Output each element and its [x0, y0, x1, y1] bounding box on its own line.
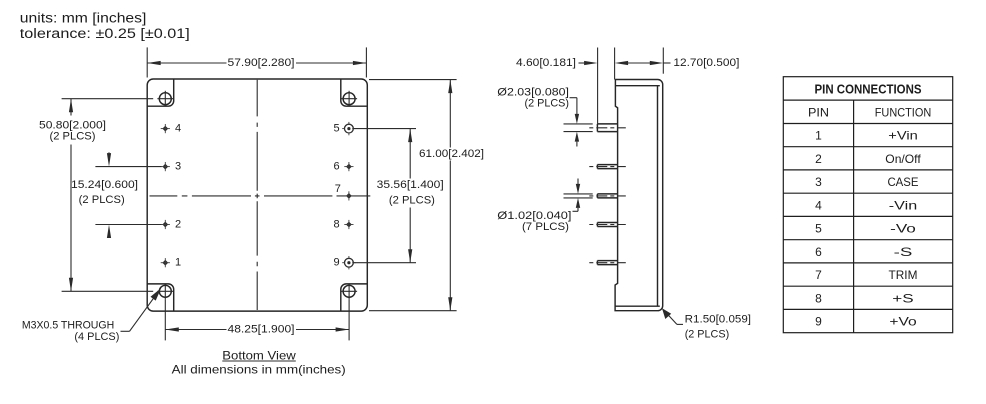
label Bottom View — [222, 348, 296, 362]
vertical center line — [256, 80, 258, 310]
note units — [20, 10, 147, 25]
dimension 15.24 pin rows spacing — [71, 152, 162, 238]
svg-text:5: 5 — [334, 123, 340, 135]
corner ear bottom-right — [341, 284, 368, 311]
svg-text:2: 2 — [175, 219, 181, 231]
pin 2 marker — [161, 219, 181, 231]
side pin row 4 — [589, 223, 626, 227]
table row 8 — [815, 291, 914, 305]
side view case outline — [615, 80, 663, 311]
mounting hole top-right — [341, 91, 357, 107]
svg-text:-Vin: -Vin — [889, 198, 917, 212]
svg-text:Ø2.03[0.080]: Ø2.03[0.080] — [497, 86, 569, 98]
leader R1.50 corner radius — [662, 308, 751, 340]
pin 6 marker — [334, 161, 354, 173]
side pin row 5 — [589, 261, 626, 265]
svg-text:-Vo: -Vo — [890, 222, 916, 236]
pin 1 marker — [161, 257, 181, 269]
svg-text:CASE: CASE — [887, 175, 918, 189]
body outline bottom view — [147, 79, 367, 311]
pin 3 marker — [161, 161, 181, 173]
table row 1 — [815, 129, 918, 143]
svg-text:units: mm [inches]: units: mm [inches] — [20, 10, 147, 25]
svg-text:4: 4 — [815, 198, 822, 212]
svg-text:7: 7 — [815, 268, 822, 282]
svg-text:4.60[0.181]: 4.60[0.181] — [516, 57, 576, 69]
mounting hole bottom-left — [157, 283, 173, 299]
side pin row 1 — [589, 124, 626, 132]
svg-text:8: 8 — [334, 219, 340, 231]
svg-text:3: 3 — [815, 175, 822, 189]
svg-text:61.00[2.402]: 61.00[2.402] — [419, 148, 484, 160]
note tolerance — [20, 26, 190, 41]
svg-text:On/Off: On/Off — [885, 152, 921, 166]
table row 9 — [815, 315, 917, 329]
svg-text:All dimensions in mm(inches): All dimensions in mm(inches) — [172, 363, 346, 377]
pin 5 marker — [334, 122, 356, 135]
svg-text:57.90[2.280]: 57.90[2.280] — [228, 57, 295, 69]
dimension 12.70 body width — [615, 48, 740, 74]
svg-text:35.56[1.400]: 35.56[1.400] — [377, 179, 444, 191]
svg-text:(4 PLCS): (4 PLCS) — [74, 331, 119, 343]
table row 6 — [815, 245, 912, 259]
mounting hole top-left — [157, 91, 173, 107]
svg-text:9: 9 — [334, 257, 340, 269]
pin 8 marker — [334, 219, 354, 231]
corner ear top-right — [341, 79, 368, 106]
table row 7 — [815, 268, 917, 282]
dimension 57.90 top width — [147, 47, 366, 77]
svg-text:(2 PLCS): (2 PLCS) — [389, 195, 435, 207]
label all dimensions note — [172, 363, 346, 377]
pin 4 marker — [161, 123, 181, 135]
svg-text:-S: -S — [894, 245, 913, 259]
svg-text:(2 PLCS): (2 PLCS) — [50, 131, 96, 143]
leader M3X0.5 THROUGH — [22, 288, 161, 343]
svg-text:(7 PLCS): (7 PLCS) — [522, 221, 569, 233]
svg-text:5: 5 — [815, 222, 822, 236]
svg-text:6: 6 — [334, 161, 340, 173]
pin 7 marker — [335, 183, 354, 200]
svg-text:1: 1 — [175, 257, 181, 269]
side pin row 3 — [589, 194, 626, 198]
svg-text:3: 3 — [175, 161, 181, 173]
table row 2 — [815, 152, 921, 166]
svg-text:48.25[1.900]: 48.25[1.900] — [228, 324, 295, 336]
dimension 61.00 right height — [369, 80, 484, 311]
corner ear bottom-left — [147, 284, 174, 311]
svg-text:15.24[0.600]: 15.24[0.600] — [71, 179, 138, 191]
corner ear top-left — [147, 79, 174, 106]
svg-text:9: 9 — [815, 315, 822, 329]
svg-text:50.80[2.000]: 50.80[2.000] — [39, 119, 106, 131]
svg-text:tolerance: ±0.25 [±0.01]: tolerance: ±0.25 [±0.01] — [20, 26, 190, 41]
table row 3 — [815, 175, 918, 189]
svg-text:M3X0.5 THROUGH: M3X0.5 THROUGH — [22, 320, 114, 332]
svg-text:(2 PLCS): (2 PLCS) — [685, 329, 730, 341]
dimension 35.56 pins 5-9 spacing — [352, 129, 443, 263]
svg-text:PIN: PIN — [808, 105, 829, 119]
svg-text:4: 4 — [175, 123, 181, 135]
dimension 50.80 left holes spacing — [39, 99, 153, 292]
svg-text:+Vo: +Vo — [889, 315, 917, 329]
svg-text:7: 7 — [335, 183, 341, 195]
side pin row 2 — [589, 165, 626, 169]
svg-text:(2 PLCS): (2 PLCS) — [79, 194, 125, 206]
svg-text:8: 8 — [815, 291, 822, 305]
svg-text:12.70[0.500]: 12.70[0.500] — [673, 57, 739, 69]
svg-text:6: 6 — [815, 245, 822, 259]
svg-text:Bottom View: Bottom View — [222, 348, 296, 362]
pin connections table frame — [783, 77, 952, 333]
dimension dia 2.03 pin — [497, 86, 592, 146]
pin 9 marker — [334, 256, 356, 269]
table title PIN CONNECTIONS — [815, 81, 922, 96]
svg-text:1: 1 — [815, 129, 822, 143]
side view baseplate inner lines — [615, 86, 660, 307]
mounting hole bottom-right — [341, 283, 357, 299]
svg-text:+Vin: +Vin — [888, 129, 918, 143]
table column headers — [808, 105, 931, 119]
svg-text:+S: +S — [892, 291, 913, 305]
table row 5 — [815, 222, 916, 236]
dimension 48.25 bottom hole spacing — [165, 299, 349, 340]
dimension dia 1.02 pins — [497, 179, 592, 233]
svg-text:FUNCTION: FUNCTION — [875, 105, 932, 119]
svg-text:(2 PLCS): (2 PLCS) — [525, 98, 570, 110]
svg-text:TRIM: TRIM — [889, 268, 918, 282]
svg-text:2: 2 — [815, 152, 822, 166]
dimension 4.60 pin length — [516, 48, 615, 124]
svg-text:PIN CONNECTIONS: PIN CONNECTIONS — [815, 81, 922, 96]
svg-text:R1.50[0.059]: R1.50[0.059] — [685, 314, 751, 326]
horizontal center line — [150, 195, 371, 197]
table row 4 — [815, 198, 917, 212]
